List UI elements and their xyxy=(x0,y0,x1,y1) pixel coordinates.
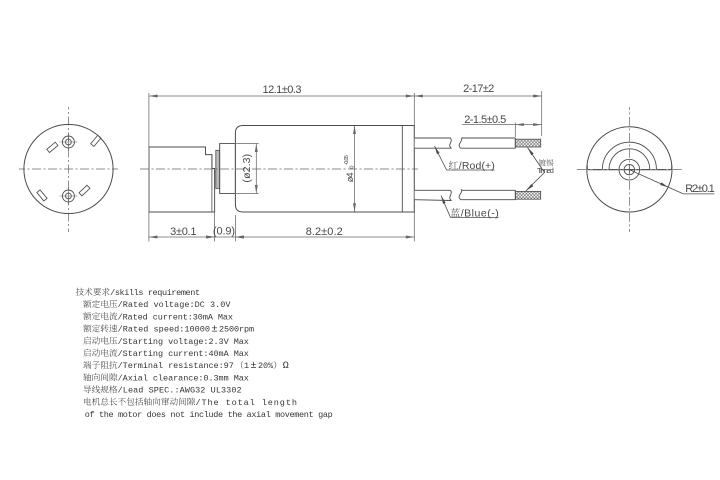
eyelet bottom terminal xyxy=(62,190,74,202)
red wire tinned end xyxy=(515,139,540,147)
R2±0.1 leader xyxy=(629,170,683,194)
red lead wire segment 1 xyxy=(414,138,451,148)
can seam chord line xyxy=(587,166,671,170)
right end view outer circle xyxy=(587,127,672,212)
eyelet top terminal xyxy=(62,136,74,148)
side view axis centerline xyxy=(140,168,418,170)
eccentric weight xyxy=(149,147,215,212)
svg-text:/Lead SPEC.:AWG32 UL3302: /Lead SPEC.:AWG32 UL3302 xyxy=(118,386,242,396)
slot bottom-right vent slot xyxy=(79,185,90,196)
spec line 1 xyxy=(76,288,84,296)
label blue/Blue(-) text xyxy=(451,208,460,217)
svg-text:2500rpm: 2500rpm xyxy=(219,325,254,335)
motor body phi4 xyxy=(235,126,414,213)
weight step line xyxy=(211,155,213,212)
dimension phi4 0/-0.05 xyxy=(354,126,356,212)
svg-text:0: 0 xyxy=(349,166,355,169)
svg-text:±: ± xyxy=(211,324,217,336)
spec line 6 xyxy=(83,349,90,357)
left end view outer circle (motor end cap) xyxy=(24,124,113,213)
svg-text:/skills requirement: /skills requirement xyxy=(110,288,200,298)
svg-text:/Starting current:40mA Max: /Starting current:40mA Max xyxy=(118,349,249,359)
svg-text:/Rod(+): /Rod(+) xyxy=(459,160,495,172)
right end view centerline horizontal xyxy=(575,168,684,170)
svg-text:/The total length: /The total length xyxy=(195,398,297,408)
svg-text:2-17±2: 2-17±2 xyxy=(463,83,494,95)
bearing (shaded) xyxy=(216,150,220,188)
bearing dome inner arc xyxy=(609,149,650,169)
extension line tinned start x515.3 xyxy=(514,123,516,138)
svg-text:±: ± xyxy=(250,360,256,372)
spec line 8 xyxy=(83,373,91,381)
body end cap seam xyxy=(401,126,403,213)
label red/Rod(+) leader xyxy=(435,146,447,170)
spec line 9 xyxy=(83,385,91,393)
svg-text:Tinned: Tinned xyxy=(537,166,554,175)
shaft circle outer xyxy=(619,159,640,180)
extension line wire end x541.7 xyxy=(541,91,543,136)
svg-text:-0.05: -0.05 xyxy=(344,155,350,165)
dimension 12.1±0.3 xyxy=(149,95,414,97)
label tinned text xyxy=(539,159,546,166)
svg-text:ø4: ø4 xyxy=(345,173,355,183)
svg-text:Ω: Ω xyxy=(283,361,289,372)
front bushing phi2.3 xyxy=(220,144,236,194)
dimension 3±0.1 xyxy=(149,236,158,239)
svg-text:(0.9): (0.9) xyxy=(213,226,235,238)
blue lead wire segment 1 xyxy=(414,190,451,200)
spec line 2 xyxy=(83,300,91,308)
svg-text:R2±0.1: R2±0.1 xyxy=(685,183,715,195)
dimension (phi2.3) extension top xyxy=(220,143,259,145)
label blue/Blue(-) leader xyxy=(441,196,451,218)
svg-text:1: 1 xyxy=(244,361,249,371)
right end view centerline vertical xyxy=(628,107,630,232)
red lead wire segment 2 xyxy=(459,138,515,148)
dimension (phi2.3) xyxy=(255,144,257,194)
svg-text:8.2±0.2: 8.2±0.2 xyxy=(306,226,343,238)
svg-text:of the motor does not include: of the motor does not include the axial … xyxy=(85,410,333,420)
extension line body right xyxy=(413,93,415,242)
svg-text:20%: 20% xyxy=(258,361,274,371)
label red/Rod(+) text xyxy=(449,161,458,169)
svg-text:/Rated voltage:DC 3.0V: /Rated voltage:DC 3.0V xyxy=(118,300,232,310)
bottom dimension line xyxy=(149,236,414,238)
eyelet top crosshair xyxy=(59,141,77,143)
label tinned leaders xyxy=(528,148,545,173)
svg-text:/Starting voltage:2.3V Max: /Starting voltage:2.3V Max xyxy=(118,337,249,347)
spec line 7 xyxy=(83,361,91,369)
slot top-left vent slot xyxy=(47,142,58,152)
slot bottom-left vent slot xyxy=(37,190,47,201)
spec line 10 xyxy=(84,398,91,406)
spec line 3 xyxy=(83,312,91,320)
svg-text:/Terminal resistance:97: /Terminal resistance:97 xyxy=(118,361,234,371)
left end view centerline vertical xyxy=(68,107,70,232)
svg-text:/Axial clearance:0.3mm Max: /Axial clearance:0.3mm Max xyxy=(118,373,249,383)
extension line left (weight) xyxy=(148,93,150,242)
spec line 4 xyxy=(83,324,91,332)
slot top-right vent slot xyxy=(91,135,101,146)
svg-text:/Rated current:30mA Max: /Rated current:30mA Max xyxy=(118,312,233,322)
extension line weight right x214.6 xyxy=(214,183,216,242)
svg-text:2-1.5±0.5: 2-1.5±0.5 xyxy=(464,114,506,126)
left end view centerline horizontal xyxy=(19,168,118,170)
svg-text:(ø2.3): (ø2.3) xyxy=(241,154,253,183)
spec line 5 xyxy=(83,336,90,344)
dimension (0.9) xyxy=(206,236,215,239)
eyelet bottom crosshair xyxy=(59,195,77,197)
dimension 2-17±2 xyxy=(414,95,541,97)
blue wire tinned end xyxy=(515,191,540,199)
blue lead wire segment 2 xyxy=(459,190,515,200)
bearing dome outer arc xyxy=(602,142,656,169)
dimension 2-1.5±0.5 xyxy=(462,124,542,126)
svg-text:12.1±0.3: 12.1±0.3 xyxy=(263,84,302,96)
shaft circle inner xyxy=(624,164,634,174)
svg-text:/Blue(-): /Blue(-) xyxy=(461,207,499,219)
center cross xyxy=(624,169,634,171)
svg-text:3±0.1: 3±0.1 xyxy=(170,226,196,238)
dimension (phi2.3) extension bottom xyxy=(220,193,259,195)
svg-text:/Rated speed:10000: /Rated speed:10000 xyxy=(118,325,210,335)
dimension 8.2±0.2 xyxy=(235,236,244,239)
extension line body left x235.4 xyxy=(234,215,236,242)
